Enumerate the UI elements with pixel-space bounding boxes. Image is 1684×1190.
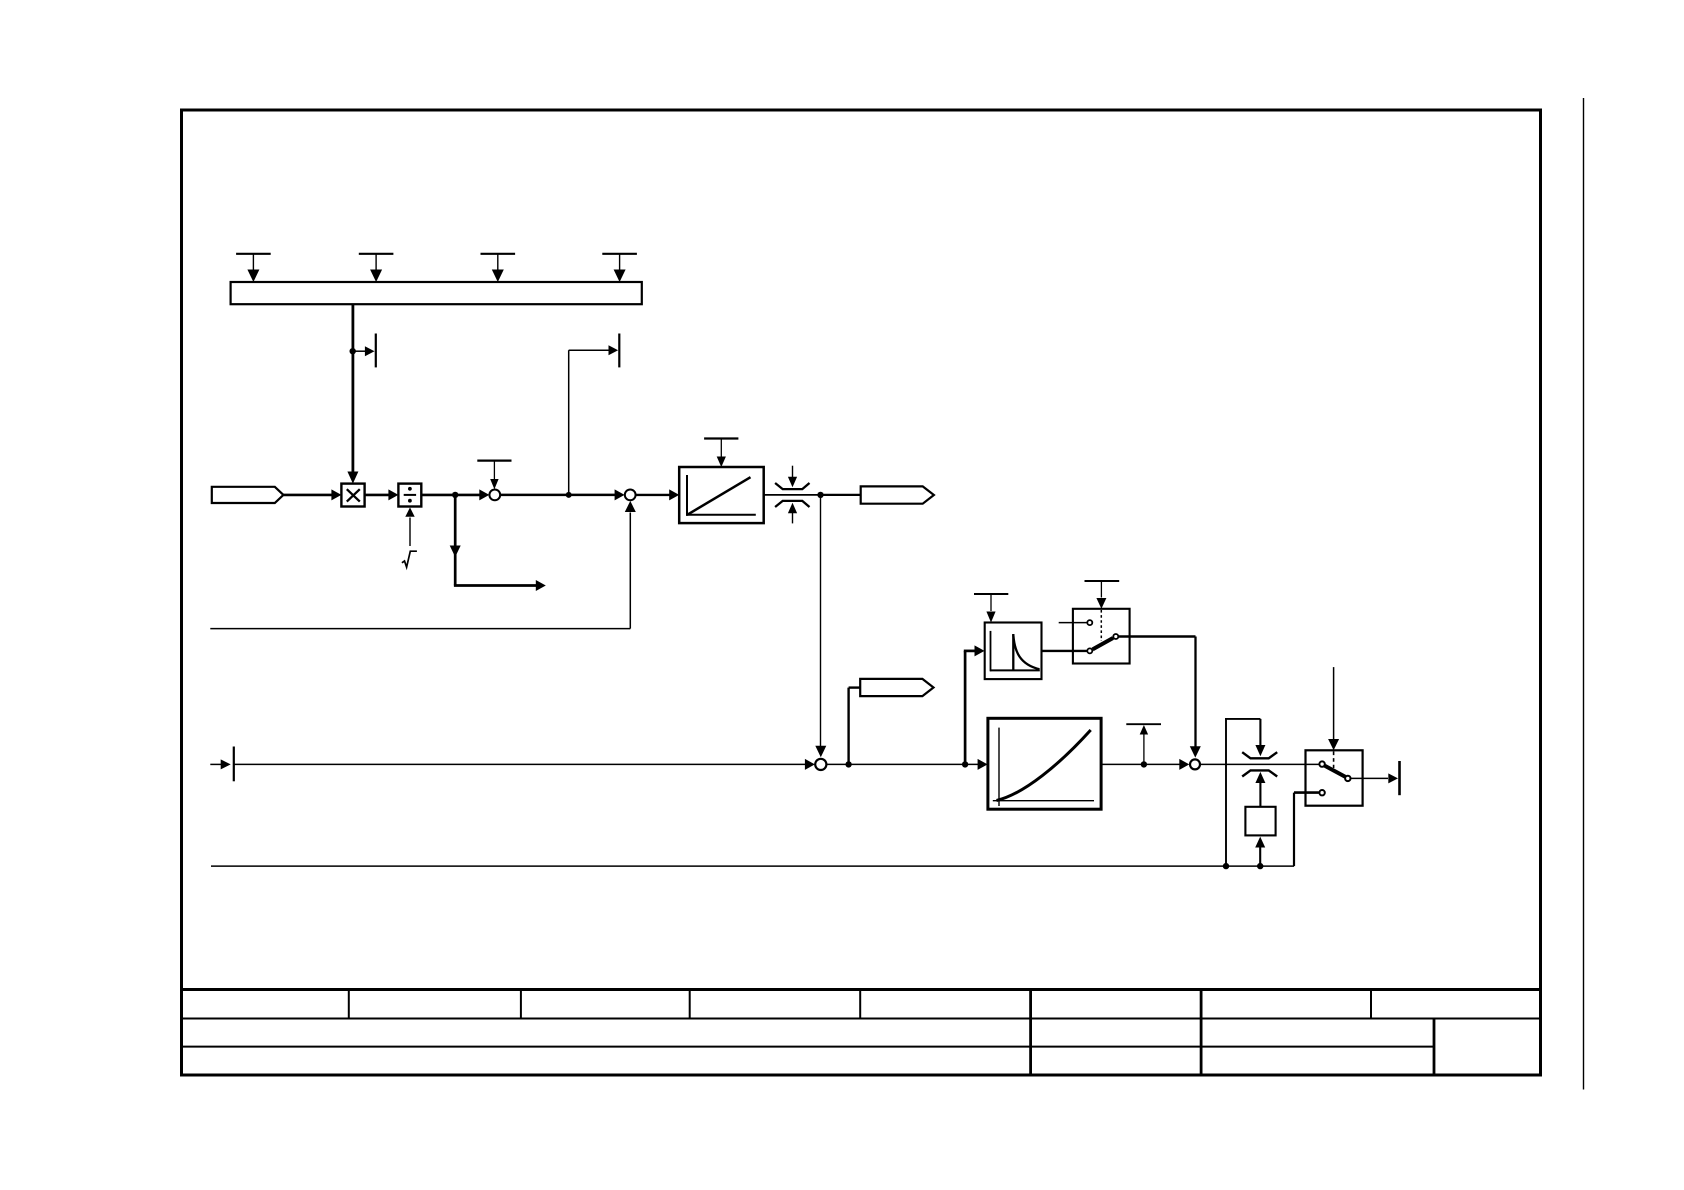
wire summing point 2 to ramp block	[636, 489, 680, 500]
switch block 2	[1306, 750, 1363, 805]
node junction monitor tap	[1141, 761, 1147, 767]
node junction derivative tap	[962, 761, 968, 767]
derivative smoothing block	[985, 623, 1042, 680]
title block	[182, 990, 1541, 1076]
summing point 3	[815, 759, 826, 770]
parameter input to summing point 1	[477, 461, 511, 490]
control input to switch 2	[1328, 667, 1339, 750]
square root input to divider	[402, 507, 417, 567]
wire bottom line to limit value block	[1255, 837, 1265, 867]
node junction after divider	[452, 492, 458, 498]
node junction flag 2 tap	[845, 761, 851, 767]
sheet connector out A	[353, 334, 376, 368]
input connector flag	[212, 487, 284, 503]
limiter 2 symbol	[1242, 752, 1277, 807]
wire multiplier to divider	[365, 489, 399, 500]
wire up from main line	[568, 350, 570, 495]
summing point 4	[1190, 759, 1200, 769]
parameter input p2	[359, 254, 394, 282]
node junction after limiter	[817, 492, 823, 498]
right margin rule	[1583, 98, 1585, 1090]
divider block	[398, 484, 421, 507]
multiplier block	[341, 484, 364, 507]
characteristic block	[988, 718, 1101, 809]
node junction limit block feed	[1257, 863, 1263, 869]
output connector flag 1	[861, 486, 934, 503]
wire to output flag 1	[821, 494, 862, 496]
wire from below into summing point 2	[210, 501, 636, 629]
ramp function block	[679, 467, 764, 523]
wire summing point 4 to switch 2	[1200, 763, 1319, 765]
output connector flag 2	[849, 679, 934, 765]
parameter input to derivative block	[974, 594, 1008, 623]
wire divider to summing point 1	[421, 489, 489, 500]
switch block 1	[1059, 609, 1130, 664]
wire up to derivative block	[964, 645, 985, 764]
parameter input to switch 1	[1085, 581, 1120, 609]
node junction limiter feed	[1223, 863, 1229, 869]
sheet connector out B	[569, 334, 620, 368]
wire down to summing point 3	[815, 495, 826, 757]
parameter input p4	[602, 254, 637, 282]
monitor output arrow up	[1126, 724, 1161, 764]
wire derivative block to switch 1	[1042, 650, 1088, 652]
wire input to multiplier	[283, 489, 341, 500]
wire branch down and right	[450, 495, 546, 591]
wire characteristic block to summing point 4	[1101, 759, 1189, 770]
wire long bottom line	[211, 793, 1319, 867]
node junction at feedback tap	[566, 492, 572, 498]
parameter input p1	[236, 254, 271, 282]
wire summing point 3 to characteristic block	[826, 759, 987, 770]
parameter input p3	[481, 254, 516, 282]
node junction on bar output	[350, 348, 356, 354]
limiter 2 upper feed	[1225, 719, 1265, 866]
wire ramp block through limiter	[764, 494, 821, 496]
wire switch 1 to summing point 4	[1119, 637, 1201, 758]
parameter input to ramp block	[704, 439, 738, 468]
drawing frame border	[182, 110, 1541, 1075]
limit value block	[1245, 807, 1275, 836]
output wire to terminator	[1351, 761, 1400, 795]
wire summing point 1 to summing point 2	[500, 489, 624, 500]
wire long setpoint line	[234, 759, 815, 770]
summing point 2	[625, 490, 636, 501]
summing point 1	[489, 490, 500, 501]
parameter bar	[231, 282, 642, 304]
sheet connector in C	[210, 747, 234, 782]
limiter symbol	[775, 466, 809, 524]
wire bar output down	[347, 304, 358, 483]
